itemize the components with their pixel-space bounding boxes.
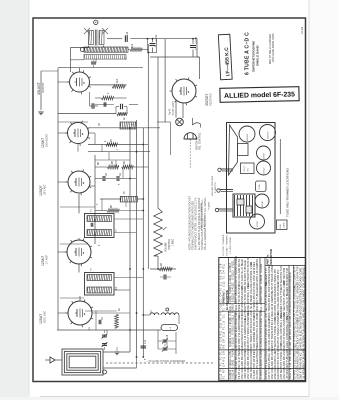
wire row 151.7 — [88, 151, 150, 153]
svg-text:12SA7: 12SA7 — [39, 314, 43, 324]
table column rules — [227, 258, 229, 381]
capacitor C12 — [91, 103, 93, 109]
wire conv right — [92, 312, 130, 314]
tube 12SK7 IF amp — [66, 169, 92, 195]
wire output tube top — [79, 68, 81, 72]
svg-text:35Z5GT: 35Z5GT — [268, 131, 270, 139]
svg-text:+C15B: +C15B — [196, 36, 198, 44]
svg-text:1 MEG: 1 MEG — [173, 239, 175, 246]
svg-text:& CO. FOR: & CO. FOR — [204, 218, 206, 229]
wire B+ corner down to rectifier cathode — [196, 39, 198, 57]
table row rules — [219, 302, 265, 304]
tuning gang block — [233, 194, 255, 217]
speaker in layout — [229, 125, 238, 175]
svg-text:R-11: R-11 — [223, 263, 226, 269]
svg-text:—TO GANG TUNING CONDENSER: —TO GANG TUNING CONDENSER — [146, 360, 185, 363]
wire row 311 — [85, 310, 117, 312]
wire plate to output transformer — [88, 46, 90, 49]
svg-text:CORD: CORD — [284, 222, 286, 228]
svg-text:C-9: C-9 — [223, 351, 226, 356]
wire rectifier heater line — [150, 56, 200, 58]
wire row 122 right with vertical — [157, 121, 170, 123]
svg-text:I.F. AMP: I.F. AMP — [46, 255, 49, 264]
table header bands — [219, 304, 264, 311]
chassis layout outline — [227, 123, 276, 234]
wire conv top — [79, 296, 81, 301]
2nd IF transformer small coil — [120, 122, 136, 129]
wire extension 167 — [143, 166, 148, 168]
wire IF1 to tube — [78, 238, 80, 240]
svg-text:G-72513: G-72513 — [260, 369, 263, 379]
IF frequency box I.F-455 K.C — [218, 34, 232, 80]
electrolytic filter capacitor C15B — [192, 39, 194, 44]
IF transformer 1 can — [85, 214, 115, 238]
svg-text:PILOT LAMP: PILOT LAMP — [172, 101, 175, 115]
svg-text:PAPER: PAPER — [289, 300, 292, 308]
paper left edge — [28, 0, 30, 397]
small box L5 C17 — [277, 220, 288, 230]
svg-text:FOR ALLIED RADIO CORP.: FOR ALLIED RADIO CORP. — [272, 33, 275, 62]
wire B+ line to rectifier — [130, 38, 197, 40]
wire row 207 — [60, 206, 95, 208]
svg-text:E-52216: E-52216 — [260, 359, 263, 369]
volume control shaft — [221, 168, 234, 170]
svg-text:C-4: C-4 — [223, 270, 226, 275]
svg-text:6 TUBE A C–D C: 6 TUBE A C–D C — [245, 32, 251, 75]
svg-text:12SQ7: 12SQ7 — [39, 185, 43, 196]
bus wire filament — [147, 44, 149, 269]
svg-text:SINGLE BAND: SINGLE BAND — [256, 44, 260, 66]
wire output grid line — [90, 84, 127, 86]
svg-text:DET. AVC: DET. AVC — [44, 184, 47, 195]
svg-text:R-7: R-7 — [223, 369, 226, 374]
layout tube 12SK7 b — [250, 214, 265, 229]
svg-text:35L6GT: 35L6GT — [247, 133, 249, 141]
svg-text:TUNING: TUNING — [209, 201, 211, 210]
svg-text:ELECTROLYTIC 30-50 MFD: ELECTROLYTIC 30-50 MFD — [255, 314, 259, 347]
volume control potentiometer vertical — [154, 208, 163, 256]
svg-text:COND: COND — [259, 184, 261, 190]
field coil terminal circle — [80, 48, 84, 52]
svg-text:MICA: MICA — [289, 329, 292, 335]
parts list table frame — [219, 258, 305, 381]
svg-text:VOLUME: VOLUME — [166, 242, 168, 252]
tube 12SQ7 1st audio — [65, 121, 90, 146]
svg-text:MICA: MICA — [289, 272, 292, 278]
svg-text:12SA7: 12SA7 — [261, 200, 264, 207]
IF transformer 2 can — [85, 273, 115, 296]
svg-text:DESCRIPTION: DESCRIPTION — [271, 248, 273, 264]
wire extension 144.5 — [143, 144, 148, 146]
layout tube 12SA7 — [255, 194, 269, 208]
svg-text:G-72513: G-72513 — [260, 327, 263, 337]
component value labels — [89, 31, 198, 360]
wire stub tube2 — [89, 132, 96, 134]
wire row 104.5 with capacitor — [95, 104, 114, 106]
svg-text:2ND AUDIO: 2ND AUDIO — [46, 134, 49, 147]
svg-text:1 W: 1 W — [289, 362, 292, 367]
on-off switch on volume control — [192, 118, 194, 125]
svg-text:OSC: OSC — [248, 167, 250, 172]
junction dots on buses — [129, 127, 131, 129]
svg-text:C-4: C-4 — [223, 362, 226, 367]
svg-text:G-72513: G-72513 — [260, 337, 263, 347]
svg-text:R12: R12 — [132, 43, 134, 48]
bus wire AVC — [129, 128, 131, 352]
svg-text:PAPER: PAPER — [289, 284, 292, 292]
title box ALLIED model 6F-235 — [220, 87, 299, 103]
wire below voice coil — [71, 59, 85, 61]
oscillator padder coil — [120, 196, 137, 202]
svg-text:.05 MFD 200V TUBULAR: .05 MFD 200V TUBULAR — [255, 287, 259, 316]
trimmer C3 — [102, 334, 107, 336]
svg-text:R10: R10 — [117, 78, 119, 83]
resistor R7 — [106, 143, 118, 147]
svg-text:C16: C16 — [167, 334, 169, 339]
grid cap C2 — [98, 320, 100, 325]
svg-text:OSC COIL AND PRI AS: OSC COIL AND PRI AS — [301, 267, 305, 294]
svg-text:PAPER: PAPER — [289, 347, 292, 355]
svg-text:C10: C10 — [145, 339, 147, 344]
capacitor row 178 — [102, 176, 104, 181]
svg-text:12SK7: 12SK7 — [257, 220, 259, 227]
svg-text:& SWITCH: & SWITCH — [215, 182, 217, 193]
oscillator coil windings — [150, 313, 179, 315]
svg-text:R-3: R-3 — [223, 344, 226, 349]
svg-text:.01 MFD 400V TUBULAR: .01 MFD 400V TUBULAR — [301, 350, 305, 379]
tube 12SK7 IF — [65, 238, 93, 266]
output transformer T2 with speaker — [84, 28, 108, 46]
wire trimmer column — [175, 332, 177, 354]
wire left stubs to bus — [58, 81, 70, 83]
wire row 268.5 right — [150, 268, 176, 270]
paper bottom edge — [40, 396, 309, 398]
antenna symbol — [50, 357, 55, 363]
wire row 330 long — [57, 329, 161, 331]
layout IF can box 1 — [241, 163, 255, 174]
svg-text:C-17 OSC. TRIMMER: C-17 OSC. TRIMMER — [223, 234, 225, 256]
wire pot bottom — [157, 256, 159, 269]
svg-text:PART No.: PART No. — [223, 292, 226, 303]
svg-text:OUTPUT: OUTPUT — [41, 82, 45, 93]
wire 12SQ7 grid row — [88, 144, 143, 146]
svg-text:220 OHM 1 W CARBON: 220 OHM 1 W CARBON — [255, 259, 259, 287]
wire row 241 — [60, 243, 88, 245]
wire tube2 bottom drop — [77, 144, 79, 152]
wire pot top — [156, 39, 158, 53]
svg-text:10 MFD 25V ELECTROLYTIC: 10 MFD 25V ELECTROLYTIC — [255, 345, 259, 379]
wire row 298 — [60, 297, 84, 299]
svg-text:MICA: MICA — [289, 321, 292, 327]
osc coil shield box — [161, 325, 178, 331]
svg-text:+: + — [194, 48, 198, 50]
ground cathode — [38, 111, 43, 113]
dial lamp circle above transformer — [94, 20, 98, 24]
svg-text:G-72513: G-72513 — [260, 348, 263, 358]
electrolytic filter capacitor C15A — [152, 39, 154, 42]
wire extension 178.5 — [130, 178, 137, 180]
layout tube 12SQ7 — [257, 161, 271, 175]
svg-text:1 W: 1 W — [289, 367, 292, 372]
wire osc row 315 — [143, 314, 150, 316]
dial shaft — [218, 208, 233, 210]
wire stub tube3 — [90, 185, 95, 187]
cathode branch 35L6 — [40, 71, 42, 110]
svg-text:L-5 LINE CHOKE: L-5 LINE CHOKE — [230, 236, 232, 254]
svg-text:TUBE AND TRIMMER LOCATIONS: TUBE AND TRIMMER LOCATIONS — [286, 168, 290, 217]
svg-text:LINE: LINE — [280, 223, 282, 228]
svg-text:C-16 ANT. TRIMMER: C-16 ANT. TRIMMER — [226, 235, 229, 256]
svg-text:D-41022: D-41022 — [260, 296, 263, 306]
wire IF can 1 right rows — [114, 218, 143, 220]
wire rectifier to pilot branch — [175, 101, 177, 118]
bus wire right 165 — [164, 39, 166, 122]
svg-text:CONTROL: CONTROL — [169, 238, 171, 250]
loop terminal circle G — [103, 370, 107, 374]
svg-text:12SK7: 12SK7 — [264, 152, 266, 159]
svg-text:C-12: C-12 — [223, 281, 226, 287]
wire vertical 95 bus — [94, 155, 96, 244]
svg-text:12SK7: 12SK7 — [41, 138, 45, 148]
svg-text:RECTIFIER: RECTIFIER — [210, 93, 213, 106]
gray strip below page — [0, 397, 339, 400]
svg-text:12SQ7: 12SQ7 — [264, 167, 266, 174]
svg-text:35Z5GT: 35Z5GT — [205, 94, 209, 106]
left bus wire — [57, 68, 59, 330]
pointer line for caption — [279, 139, 281, 214]
paper right edge — [308, 0, 310, 397]
svg-text:12SQ7: 12SQ7 — [244, 166, 246, 172]
wire row 122 — [58, 121, 88, 123]
osc coil terminal — [166, 308, 169, 311]
layout IF can box 2 — [256, 181, 267, 192]
resistor R11 — [101, 96, 113, 100]
tube 12SA7 converter — [66, 299, 94, 327]
capacitor on plate bus — [141, 345, 147, 347]
trimmer C16 — [163, 339, 168, 341]
svg-text:.05 MFD 200V TUBULAR: .05 MFD 200V TUBULAR — [301, 322, 305, 351]
wire row 160 — [95, 159, 130, 161]
svg-text:H-81126: H-81126 — [260, 286, 263, 296]
resistor R1 vertical — [115, 314, 119, 328]
svg-text:R-19: R-19 — [300, 27, 304, 34]
svg-text:C-15: C-15 — [223, 331, 226, 337]
svg-text:No. DESCRIPTION: No. DESCRIPTION — [227, 290, 229, 310]
capacitor C14 on B+ line — [124, 35, 126, 42]
schematic border frame — [33, 18, 306, 382]
resistor R10 — [112, 85, 125, 89]
tube 35Z5GT rectifier — [170, 77, 198, 105]
tuning shaft — [220, 189, 234, 191]
loop lead wires — [103, 351, 130, 353]
wire filter node — [147, 39, 149, 53]
svg-text:12SK7: 12SK7 — [41, 256, 45, 266]
svg-text:C14: C14 — [127, 31, 129, 36]
table text content — [220, 256, 306, 379]
svg-text:+C15A: +C15A — [155, 34, 158, 42]
svg-text:D-41022: D-41022 — [260, 263, 263, 273]
svg-text:MFD. BY WELLS-GARDNER: MFD. BY WELLS-GARDNER — [200, 202, 203, 230]
wire 12SQ7 plate row — [89, 127, 161, 129]
svg-text:C-1: C-1 — [223, 314, 226, 319]
svg-text:C-9: C-9 — [223, 339, 226, 344]
svg-text:E-52216: E-52216 — [260, 274, 263, 284]
short vertical connectors — [101, 145, 103, 152]
svg-text:MICA: MICA — [289, 373, 292, 379]
wire transformer secondary — [103, 46, 105, 48]
svg-text:R-11: R-11 — [223, 356, 226, 362]
capacitor C5 — [163, 275, 165, 280]
trimmer C17 — [163, 347, 168, 349]
svg-text:35L6GT: 35L6GT — [37, 81, 41, 95]
svg-text:PAPER: PAPER — [289, 292, 292, 300]
svg-text:PART No.: PART No. — [267, 254, 270, 265]
tube 35L6GT output — [67, 70, 91, 94]
resistor R3 — [159, 267, 172, 271]
dashed link to gang condenser — [106, 362, 213, 364]
resistor row volume — [107, 165, 119, 169]
resistor R12 after choke — [128, 49, 130, 51]
tone capacitor C13 with resistor — [120, 104, 122, 110]
wire tube4 to IF2 — [78, 264, 80, 273]
svg-text:A-10432: A-10432 — [260, 317, 263, 327]
wire IF can 2 right rows — [114, 277, 143, 279]
svg-text:VOL. CONTROL: VOL. CONTROL — [200, 132, 202, 150]
layout tube 35Z5GT — [260, 125, 276, 141]
svg-text:MOD. OSC: MOD. OSC — [44, 311, 47, 323]
svg-text:G-72513: G-72513 — [260, 306, 263, 316]
bus wire B+ screen — [136, 120, 138, 357]
loop antenna L1 — [62, 349, 103, 375]
wire vertical 126 segment — [125, 199, 127, 207]
svg-text:.01 MFD 400V TUBULAR: .01 MFD 400V TUBULAR — [301, 293, 305, 322]
wire lower return 35L6 — [58, 113, 116, 115]
bus wire plate — [142, 128, 144, 357]
wire coil row 199 — [100, 198, 120, 200]
capacitor C? below bar — [91, 61, 96, 63]
pilot lamp No.47 — [176, 118, 184, 126]
resistor R5 row 210.5 — [107, 209, 119, 213]
layout tube 12SK7 a — [257, 146, 271, 160]
AC plug — [184, 133, 197, 139]
svg-text:ALLIED model 6F-235: ALLIED model 6F-235 — [224, 91, 295, 99]
trimmer C4 — [102, 343, 107, 345]
gray strip left of page — [0, 0, 29, 400]
svg-text:C17: C17 — [167, 342, 169, 347]
svg-text:VOLUME CONTROL: VOLUME CONTROL — [212, 175, 214, 196]
ground below trimmers — [114, 351, 119, 353]
svg-text:MFD. BY WELLS-GARDNER: MFD. BY WELLS-GARDNER — [269, 34, 272, 64]
speaker voice-coil hatched bar — [84, 55, 126, 60]
filter choke / speaker field hatched bar — [84, 47, 128, 52]
layout tube 35L6GT — [239, 126, 255, 142]
line cord dotted — [189, 140, 191, 169]
